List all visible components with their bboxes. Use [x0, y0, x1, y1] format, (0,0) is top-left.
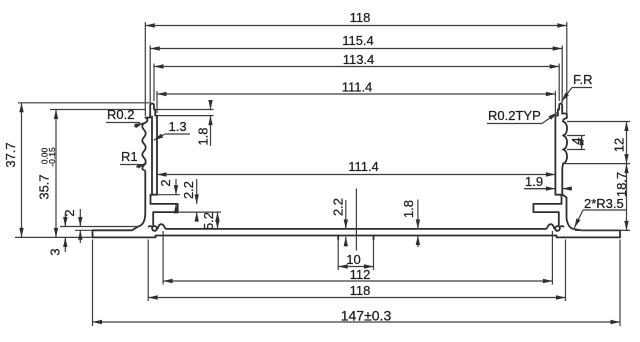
dimension 147±0.3 [93, 321, 357, 323]
floor line [167, 228, 546, 230]
svg-text:112: 112 [350, 267, 371, 282]
dimension 118 bottom [148, 297, 356, 299]
dimension 113.4 [154, 66, 356, 68]
svg-text:1.3: 1.3 [169, 119, 187, 134]
svg-text:10: 10 [346, 252, 360, 267]
svg-text:111.4: 111.4 [342, 80, 373, 95]
bottom channel edges [338, 236, 373, 240]
svg-text:1.8: 1.8 [196, 127, 211, 145]
dimension 115.4 [150, 48, 356, 50]
dimension 1.8 top [154, 110, 214, 116]
left bottom screw boss [149, 224, 167, 231]
extension lines top right [555, 22, 566, 116]
dimension 35.7 with tolerance [55, 110, 57, 171]
svg-text:118: 118 [350, 10, 371, 25]
dimension 2 left flange [79, 209, 81, 227]
dimension 12 [626, 122, 628, 143]
dimension 118 top [145, 25, 356, 27]
svg-text:115.4: 115.4 [342, 33, 374, 48]
dimension 4 [581, 136, 583, 143]
svg-text:12: 12 [612, 138, 627, 152]
extension lines left side [15, 103, 150, 238]
dimension 37.7 [21, 103, 23, 170]
left wall tongue, inner face, slot and rail [150, 104, 178, 226]
bottom plate bottom edge with steps [93, 236, 621, 238]
svg-text:1.9: 1.9 [525, 174, 543, 189]
svg-text:4: 4 [569, 137, 584, 144]
svg-text:147±0.3: 147±0.3 [341, 308, 392, 324]
svg-text:37.7: 37.7 [3, 142, 18, 167]
dimension 1.8 bottom [417, 200, 419, 229]
centerline channel [355, 189, 357, 251]
left wall inner rib line [151, 117, 153, 195]
svg-text:111.4: 111.4 [348, 159, 379, 174]
dimension 111.4 top [157, 93, 356, 95]
svg-text:118: 118 [350, 283, 371, 298]
svg-text:3: 3 [48, 248, 63, 255]
dimension 5.2 [217, 212, 219, 221]
extension lines top left [145, 22, 157, 116]
svg-text:F.R: F.R [573, 72, 593, 87]
svg-text:113.4: 113.4 [343, 52, 375, 67]
svg-text:5.2: 5.2 [201, 212, 216, 230]
right bottom screw boss [546, 224, 564, 231]
svg-text:2.2: 2.2 [331, 198, 346, 216]
dimension 111.4 middle [157, 174, 356, 176]
dimension 2 slot [157, 194, 180, 196]
svg-text:R0.2: R0.2 [107, 107, 134, 122]
right wall tongue, inner face, slot and rail [533, 104, 562, 226]
dimension 2.2 rail [178, 211, 221, 213]
svg-text:18.7: 18.7 [614, 172, 629, 197]
dimension 18.7 [626, 164, 628, 197]
svg-text:2: 2 [158, 179, 173, 186]
svg-text:35.7: 35.7 [37, 174, 52, 199]
extension lines right side [565, 122, 630, 231]
right flange and chamfer corner 2*R3.5 [562, 195, 620, 238]
dimension 2.2 bottom center [345, 200, 347, 229]
dimension 112 [163, 280, 356, 282]
svg-text:R0.2TYP: R0.2TYP [488, 108, 541, 123]
extension lines bottom [93, 231, 621, 326]
left wall outer face with wavy ribs and flange fillet [93, 118, 151, 238]
dimension 3 left [64, 213, 66, 227]
svg-text:-0.15: -0.15 [47, 147, 57, 167]
svg-text:2: 2 [62, 209, 77, 216]
svg-text:1.8: 1.8 [401, 200, 416, 218]
svg-text:2.2: 2.2 [181, 181, 196, 199]
svg-text:2*R3.5: 2*R3.5 [584, 196, 624, 211]
svg-text:R1: R1 [121, 149, 138, 164]
right wall outer face with cooling fins [562, 114, 567, 195]
dimension 10 [338, 266, 356, 268]
